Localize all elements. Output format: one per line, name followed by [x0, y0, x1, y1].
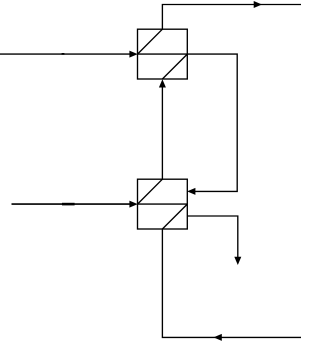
- heat exchanger E1 (top) body: [138, 29, 188, 79]
- arrowhead up into E1 bottom port: [159, 79, 166, 87]
- overlapped thick segment on E2 feed wire: [62, 203, 75, 206]
- wire: E2 right lower outlet right and down: [187, 216, 238, 258]
- wire: left feed into E2: [12, 203, 131, 205]
- E2 upper diagonal: [138, 179, 163, 204]
- wire: E2 top outlet up to E1 bottom inlet: [161, 87, 163, 179]
- arrowhead right into E2 left port: [129, 201, 137, 208]
- E1 mid partition line: [138, 53, 188, 55]
- heat exchanger E2 (bottom) body: [138, 179, 188, 229]
- E2 lower diagonal: [162, 204, 187, 229]
- arrowhead left into E2 right upper port: [187, 188, 195, 195]
- wire: E1 top outlet up and right to edge: [162, 5, 301, 30]
- arrowhead left on bottom return wire: [214, 334, 222, 341]
- arrowhead right into E1 left port: [129, 51, 137, 58]
- E2 mid partition line: [138, 203, 188, 205]
- E1 upper diagonal: [138, 29, 163, 54]
- arrowhead right on top outlet wire: [254, 1, 262, 8]
- wire: left feed into E1: [0, 53, 131, 55]
- junction tick on E1 feed wire: [62, 53, 65, 55]
- wire: bottom return from right edge to E2 bottom port: [162, 229, 301, 337]
- wire: E1 right outlet down to E2 right upper inlet: [187, 54, 237, 191]
- E1 lower diagonal: [162, 54, 187, 79]
- arrowhead down on E2 lower outlet wire: [234, 257, 241, 265]
